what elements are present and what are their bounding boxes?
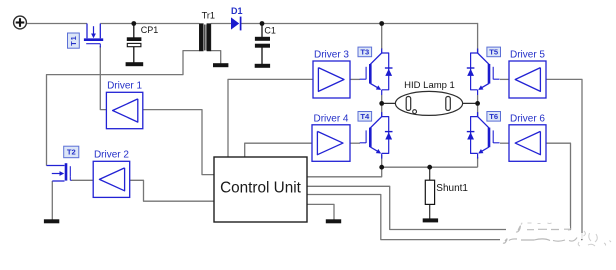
T3 tag label box — [358, 47, 372, 57]
wire — [100, 23, 199, 25]
wire — [27, 23, 87, 25]
wire — [47, 51, 200, 166]
transistor T6 — [467, 112, 500, 159]
driver Driver 1 — [106, 81, 142, 129]
wire — [307, 79, 582, 239]
wire — [307, 167, 382, 177]
DC source + terminal — [14, 16, 27, 29]
transistor T1 — [84, 24, 103, 48]
node rail-bridge — [379, 21, 384, 26]
svg-text:Tr1: Tr1 — [202, 10, 215, 20]
ground — [423, 219, 438, 222]
transistor T2 — [47, 163, 72, 181]
svg-text:T5: T5 — [489, 48, 499, 57]
wire — [100, 46, 106, 110]
transistor T3 — [360, 49, 393, 96]
node lamp-left — [379, 101, 384, 106]
T6 tag label box — [487, 112, 501, 122]
svg-text:CP1: CP1 — [141, 25, 159, 35]
wire — [381, 95, 383, 103]
svg-text:Driver 3: Driver 3 — [314, 50, 349, 61]
driver Driver 6 — [509, 113, 546, 161]
resistor Shunt1 — [425, 180, 434, 204]
wire — [350, 78, 360, 80]
ground — [326, 220, 341, 223]
HID Lamp 1 — [395, 91, 462, 115]
wire — [350, 142, 360, 144]
wire — [211, 51, 221, 64]
svg-text:HID Lamp 1: HID Lamp 1 — [404, 80, 455, 91]
driver Driver 4 — [312, 113, 350, 161]
wire — [307, 143, 571, 229]
svg-text:D1: D1 — [231, 6, 243, 16]
transistor T5 — [467, 49, 500, 96]
svg-text:T4: T4 — [360, 112, 370, 121]
svg-text:T3: T3 — [360, 48, 369, 57]
ground — [213, 64, 228, 67]
wire — [477, 95, 479, 103]
wire — [381, 103, 383, 117]
ground — [44, 220, 59, 223]
driver Driver 3 — [313, 50, 350, 98]
svg-text:T6: T6 — [489, 112, 498, 121]
transformer Tr1 — [199, 24, 211, 51]
wire — [228, 79, 313, 157]
svg-text:T1: T1 — [69, 35, 78, 45]
wire — [245, 143, 312, 157]
node shunt — [427, 165, 432, 170]
node lamp-right — [475, 101, 480, 106]
wire — [211, 23, 231, 25]
wire — [72, 179, 94, 181]
transistor T1 tag label box — [68, 33, 80, 48]
wire — [477, 23, 479, 54]
ground — [126, 63, 143, 66]
T4 tag label box — [358, 112, 372, 122]
wire — [500, 142, 509, 144]
ground — [255, 64, 270, 67]
node rail-CP1 — [131, 21, 136, 26]
wire — [307, 204, 334, 219]
wire — [450, 102, 477, 104]
wire — [429, 167, 431, 180]
svg-text:Shunt1: Shunt1 — [436, 183, 468, 194]
node rail-C1 — [260, 21, 265, 26]
wire — [382, 166, 478, 168]
wire — [241, 23, 478, 25]
svg-text:Driver 5: Driver 5 — [510, 50, 545, 61]
svg-text:C1: C1 — [264, 25, 276, 35]
capacitor CP1 — [127, 24, 141, 63]
watermark remnant (decorative) — [500, 223, 611, 246]
wire — [381, 155, 383, 167]
wire — [429, 204, 431, 218]
wire — [381, 24, 383, 50]
diode D1 — [231, 17, 241, 31]
svg-text:Driver 4: Driver 4 — [313, 113, 348, 124]
wire — [382, 102, 407, 104]
wire — [51, 181, 53, 220]
transistor T2 tag label box — [64, 146, 79, 158]
node bridge-bottom — [379, 165, 384, 170]
transistor T4 — [360, 112, 393, 159]
wire — [477, 103, 479, 117]
svg-text:Control Unit: Control Unit — [220, 180, 302, 197]
wire — [477, 157, 479, 167]
svg-text:Driver 1: Driver 1 — [107, 81, 142, 92]
driver Driver 2 — [93, 150, 130, 198]
svg-text:Driver 6: Driver 6 — [510, 113, 545, 124]
capacitor C1 — [255, 24, 269, 65]
svg-text:Driver 2: Driver 2 — [94, 150, 129, 161]
wire — [130, 180, 214, 201]
driver Driver 5 — [509, 50, 546, 98]
wire — [500, 78, 509, 80]
T5 tag label box — [487, 47, 501, 57]
wire — [143, 110, 214, 175]
Control Unit — [214, 157, 307, 222]
svg-text:T2: T2 — [67, 148, 76, 157]
